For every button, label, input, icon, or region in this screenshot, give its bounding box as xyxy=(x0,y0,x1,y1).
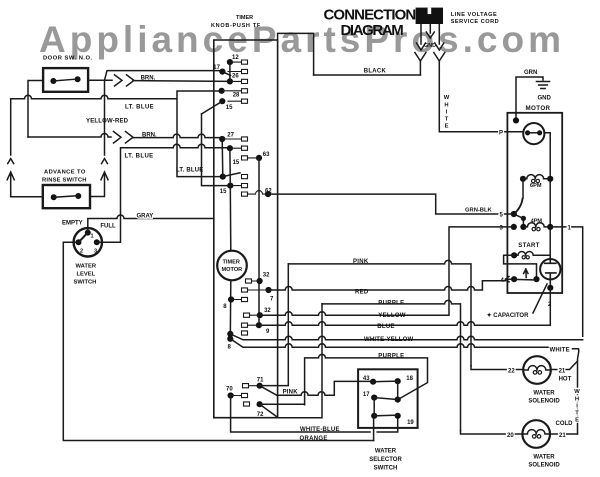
svg-text:ADVANCE TO: ADVANCE TO xyxy=(44,170,86,176)
svg-text:GRN: GRN xyxy=(524,70,537,76)
svg-text:TIMER: TIMER xyxy=(223,260,240,266)
dot 6PM right xyxy=(547,176,553,182)
cold water solenoid circle xyxy=(522,420,550,448)
wire 72 to purple2 xyxy=(260,403,305,405)
wire door switch right xyxy=(88,79,104,81)
start winding coil xyxy=(514,252,550,260)
wire WHITE-BLUE 70 to 19 xyxy=(231,396,398,433)
wire hot 21 xyxy=(551,361,578,370)
timer contact labels cluster1 xyxy=(213,55,240,111)
timer motor circle xyxy=(217,251,247,281)
wire PURPLE row1 xyxy=(322,300,461,430)
svg-text:8: 8 xyxy=(223,304,227,310)
svg-text:32: 32 xyxy=(264,308,271,314)
wire 4 arrow xyxy=(506,277,512,282)
svg-text:WATER: WATER xyxy=(375,448,397,454)
svg-text:CONNECTION: CONNECTION xyxy=(324,7,416,24)
svg-text:DIAGRAM: DIAGRAM xyxy=(341,22,404,39)
wire GRAY pin1 xyxy=(88,215,214,233)
water selector switch box xyxy=(358,369,418,428)
svg-text:T: T xyxy=(575,411,579,417)
svg-text:WHITE-YELLOW: WHITE-YELLOW xyxy=(364,337,414,343)
svg-text:GND: GND xyxy=(424,43,436,49)
centrifugal sw vertical left xyxy=(522,179,524,198)
cold solenoid coil xyxy=(522,430,550,434)
water level switch circle xyxy=(74,228,102,256)
svg-text:YELLOW-RED: YELLOW-RED xyxy=(86,119,129,125)
svg-text:WHITE-BLUE: WHITE-BLUE xyxy=(300,427,340,433)
svg-text:SELECTOR: SELECTOR xyxy=(369,457,402,463)
water level switch pins xyxy=(76,230,100,246)
timer box xyxy=(214,40,278,418)
svg-text:RED: RED xyxy=(355,290,369,296)
centrifugal blade xyxy=(514,199,523,215)
svg-text:RINSE SWITCH: RINSE SWITCH xyxy=(42,178,87,184)
advance to rinse switch SW2 box xyxy=(43,185,90,208)
6PM coil xyxy=(523,175,550,179)
svg-text:E: E xyxy=(445,124,449,130)
svg-text:MOTOR: MOTOR xyxy=(526,105,551,112)
svg-text:15: 15 xyxy=(220,189,227,195)
svg-text:9: 9 xyxy=(266,329,270,335)
hot water solenoid circle xyxy=(523,356,551,384)
contact stubs cluster4 xyxy=(231,384,260,407)
svg-text:17: 17 xyxy=(213,65,220,71)
motor right internal vertical xyxy=(549,133,551,259)
svg-text:I: I xyxy=(446,110,448,116)
motor P contact circle xyxy=(523,123,544,144)
svg-text:WATER: WATER xyxy=(533,391,555,397)
wire PINK row2 to selector 43 xyxy=(277,381,373,395)
svg-text:BRN.: BRN. xyxy=(141,76,156,82)
wire YELLOW row to motor 3 xyxy=(260,227,508,315)
svg-text:WATER: WATER xyxy=(533,455,555,461)
svg-text:SOLENOID: SOLENOID xyxy=(528,399,560,405)
svg-text:SERVICE CORD: SERVICE CORD xyxy=(451,19,499,25)
water level switch blade 1-2 xyxy=(79,233,88,243)
svg-text:7: 7 xyxy=(270,297,274,303)
svg-text:21: 21 xyxy=(559,433,566,439)
svg-text:LINE VOLTAGE: LINE VOLTAGE xyxy=(451,12,498,18)
selector dots xyxy=(370,378,401,419)
wire LT BLUE row2 pin3 xyxy=(97,144,229,242)
svg-text:WHITE: WHITE xyxy=(550,348,570,354)
svg-text:TIMER: TIMER xyxy=(236,15,253,21)
blade 71 xyxy=(260,386,277,396)
svg-text:GRAY: GRAY xyxy=(137,214,154,220)
wire GRN to ground xyxy=(516,77,543,120)
wire BRN row to timer 27 xyxy=(28,134,222,139)
cold water solenoid label xyxy=(528,455,560,469)
timer contact labels cluster2 xyxy=(220,133,273,196)
timer motor label xyxy=(222,260,243,274)
door switch SW1 box xyxy=(43,68,88,92)
svg-text:W: W xyxy=(444,95,450,101)
selector 18 vertical xyxy=(397,381,399,399)
svg-text:E: E xyxy=(575,418,579,424)
svg-text:FULL: FULL xyxy=(100,224,116,230)
plug prong left arrow xyxy=(417,24,426,50)
svg-text:63: 63 xyxy=(263,152,270,158)
svg-text:KNOB-PUSH TF: KNOB-PUSH TF xyxy=(211,23,261,29)
dots 3-row xyxy=(511,224,554,230)
4PM blade link xyxy=(514,214,524,227)
start switch bracket xyxy=(504,255,537,279)
svg-text:EMPTY: EMPTY xyxy=(62,221,83,227)
wire PINK row xyxy=(288,260,471,365)
svg-text:2: 2 xyxy=(80,249,83,255)
contact stubs cluster3 xyxy=(231,279,268,335)
svg-text:1: 1 xyxy=(91,234,94,240)
wire 20 cold xyxy=(461,431,523,435)
door switch contact dots xyxy=(50,76,80,84)
svg-text:3: 3 xyxy=(94,249,97,255)
service cord plug icon xyxy=(416,8,443,24)
svg-text:15: 15 xyxy=(226,105,233,111)
wire GRN-BLK 62 to motor 5 xyxy=(268,194,514,214)
vertical 15-blade down to row5 xyxy=(202,114,231,186)
advance switch contact dots xyxy=(51,193,82,200)
svg-text:GND: GND xyxy=(538,96,552,102)
wire RED row to start 4 xyxy=(269,281,506,290)
orange riser to selector xyxy=(373,416,375,441)
plug prong right arrow xyxy=(435,24,444,50)
svg-text:BLUE: BLUE xyxy=(377,324,395,330)
svg-text:ORANGE: ORANGE xyxy=(300,436,328,442)
wire ORANGE pin2 xyxy=(63,242,373,440)
wire riser to 17 row xyxy=(105,71,223,81)
wire cold 21 xyxy=(550,433,578,435)
label WHITE vertical right xyxy=(574,389,580,424)
svg-text:26: 26 xyxy=(232,74,239,80)
timer contact labels cluster3 xyxy=(223,273,274,351)
svg-text:22: 22 xyxy=(508,369,515,375)
wire WHITE row to solenoids 21 xyxy=(230,339,548,348)
start switch actuator arrow xyxy=(524,269,528,278)
svg-text:15: 15 xyxy=(233,160,240,166)
wire timer top to service cord xyxy=(278,33,314,75)
timer 27 to blade-pivot vertical xyxy=(221,139,224,177)
water level switch label xyxy=(74,264,97,286)
blade 72 xyxy=(260,404,278,417)
svg-text:17: 17 xyxy=(363,392,370,398)
svg-text:PURPLE: PURPLE xyxy=(378,301,404,307)
motor top-left junction dot xyxy=(513,117,519,123)
timer 148-185 vertical xyxy=(229,148,231,185)
svg-text:✦ CAPACITOR: ✦ CAPACITOR xyxy=(487,312,529,319)
wire motor 1 out right xyxy=(550,227,583,336)
capacitor bottom dot 2 xyxy=(547,285,553,291)
hot water solenoid label xyxy=(528,391,560,405)
svg-text:32: 32 xyxy=(263,273,270,279)
svg-text:27: 27 xyxy=(227,133,234,139)
label WHITE vertical xyxy=(444,95,450,130)
wire 3 row into motor xyxy=(507,226,513,228)
svg-text:72: 72 xyxy=(257,412,264,418)
door switch blade xyxy=(53,79,77,81)
svg-text:43: 43 xyxy=(363,376,370,382)
wire advance left with connector xyxy=(7,99,43,197)
svg-text:70: 70 xyxy=(226,387,233,393)
svg-text:BLACK: BLACK xyxy=(364,69,387,75)
svg-text:8: 8 xyxy=(228,345,232,351)
dot motor 5 xyxy=(511,211,517,217)
svg-text:PINK: PINK xyxy=(353,259,369,265)
svg-text:T: T xyxy=(445,117,449,123)
svg-text:21: 21 xyxy=(559,369,566,375)
svg-text:SOLENOID: SOLENOID xyxy=(528,463,560,469)
wire LT BLUE row1 xyxy=(11,91,223,177)
svg-text:WATER: WATER xyxy=(76,264,97,270)
line voltage service cord label xyxy=(451,12,499,25)
pin labels 1 2 3 xyxy=(80,234,97,255)
timer motor feed vertical xyxy=(229,186,232,251)
svg-text:DOOR SW. N.O.: DOOR SW. N.O. xyxy=(43,56,93,62)
svg-text:LT. BLUE: LT. BLUE xyxy=(176,168,204,174)
svg-text:H: H xyxy=(575,397,579,403)
svg-text:AppliancePartsPros.com: AppliancePartsPros.com xyxy=(39,19,565,60)
contact stubs cluster2 xyxy=(222,137,268,196)
wire PURPLE row2 xyxy=(305,354,428,404)
title CONNECTION DIAGRAM xyxy=(324,7,416,40)
timer contact dots cluster1 xyxy=(219,59,233,104)
svg-text:19: 19 xyxy=(407,420,414,426)
capacitor plates xyxy=(545,259,556,288)
advance to rinse switch label xyxy=(42,170,87,184)
motor box xyxy=(507,113,562,293)
svg-text:28: 28 xyxy=(233,93,240,99)
timer 15 blade to lt blue xyxy=(202,101,223,114)
svg-text:20: 20 xyxy=(507,433,514,439)
wire BRN row1 to timer 26 xyxy=(105,80,230,81)
svg-text:18: 18 xyxy=(406,376,413,382)
svg-text:LT. BLUE: LT. BLUE xyxy=(125,154,154,160)
timer 12-26 vertical xyxy=(229,62,231,81)
selector blade 43-18 xyxy=(373,380,398,383)
selector blade 17 xyxy=(374,398,398,400)
connector chevrons BRN row1 xyxy=(115,75,135,86)
svg-text:H: H xyxy=(444,103,448,109)
wire BLUE row to capacitor 2 xyxy=(259,288,550,325)
svg-text:LT. BLUE: LT. BLUE xyxy=(125,105,154,111)
wire WHITE-YELLOW row to motor 1 xyxy=(230,334,582,340)
pink vertical to 71 xyxy=(260,264,289,386)
svg-text:MOTOR: MOTOR xyxy=(222,267,243,273)
timer 17 blade xyxy=(222,72,230,76)
dot 4PM upper xyxy=(521,216,526,221)
wire advance right with connector xyxy=(90,80,108,196)
hot solenoid coil xyxy=(523,366,551,370)
svg-text:12: 12 xyxy=(232,55,239,61)
timer motor lower vertical xyxy=(229,280,232,339)
start coil left dot xyxy=(511,252,517,258)
dot 6PM left xyxy=(520,176,526,182)
P contact dots and blade xyxy=(525,130,542,135)
svg-text:START: START xyxy=(518,243,540,249)
svg-text:71: 71 xyxy=(257,378,264,384)
timer contact dots cluster3 xyxy=(227,278,271,342)
timer contact dots cluster2 xyxy=(219,136,271,197)
selector 17 vertical xyxy=(373,398,375,416)
timer contact dots cluster4 xyxy=(228,383,263,408)
capacitor circle xyxy=(540,259,560,279)
wire P row inside motor xyxy=(507,132,550,133)
connector chevrons BRN row2 xyxy=(114,132,134,144)
plug prong middle arrow GND xyxy=(426,24,434,38)
connector Y black xyxy=(415,53,426,76)
wire purple1 vertical from 72 blade xyxy=(278,304,322,418)
svg-text:YELLOW: YELLOW xyxy=(378,313,406,319)
wire WHITE corner down xyxy=(573,349,579,434)
wire door switch left to vertical xyxy=(28,81,43,138)
capacitor callout line xyxy=(533,284,547,313)
svg-text:PINK: PINK xyxy=(283,390,299,396)
svg-text:6PM: 6PM xyxy=(530,183,542,189)
wire WHITE down to motor P xyxy=(439,70,507,132)
start switch dots xyxy=(511,276,540,282)
ground symbol xyxy=(537,82,550,89)
4PM coil xyxy=(523,223,550,227)
connector Y white xyxy=(434,53,445,71)
svg-text:SWITCH: SWITCH xyxy=(74,280,97,286)
selector blade 19 xyxy=(374,414,398,417)
svg-text:P: P xyxy=(499,131,503,137)
water selector switch label xyxy=(369,448,402,471)
svg-text:PURPLE: PURPLE xyxy=(378,353,404,359)
wire BLACK xyxy=(314,74,421,76)
timer blade row4 xyxy=(223,173,240,177)
wire 22 hot xyxy=(471,366,523,370)
advance switch blade xyxy=(54,196,79,198)
svg-text:SWITCH: SWITCH xyxy=(374,465,398,471)
svg-text:BRN.: BRN. xyxy=(142,133,157,139)
svg-text:LEVEL: LEVEL xyxy=(77,272,96,278)
timer contact labels cluster4 xyxy=(226,378,264,419)
svg-text:GRN-BLK: GRN-BLK xyxy=(465,208,493,214)
start switch blade xyxy=(514,278,536,281)
contact stubs cluster1 xyxy=(222,60,248,103)
svg-text:W: W xyxy=(574,389,580,395)
svg-text:COLD: COLD xyxy=(556,421,574,427)
svg-text:HOT: HOT xyxy=(559,377,572,383)
selector labels xyxy=(363,376,415,426)
timer label xyxy=(211,15,261,29)
vertical 63 to 32 to 9 xyxy=(258,158,260,325)
